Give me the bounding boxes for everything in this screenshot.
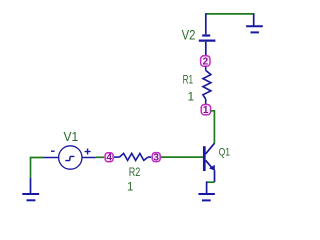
resistor R1 [203,67,211,105]
ground G2 bottom-middle [198,181,215,200]
svg-text:R1: R1 [183,73,194,87]
svg-text:2: 2 [203,56,209,67]
svg-text:3: 3 [153,152,159,163]
node 4 [105,153,113,164]
svg-text:1: 1 [127,181,133,193]
wire V1 left to ground [31,158,44,178]
ground G3 bottom-left [22,178,39,201]
ground G1 top-right [246,13,263,32]
svg-text:1: 1 [203,105,209,116]
svg-text:1: 1 [188,89,195,103]
wire node 3 to Q1 base [161,156,203,158]
transistor Q1 [204,143,215,182]
svg-text:Q1: Q1 [219,147,231,159]
node 1 [201,105,210,117]
wire V2 top to ground [206,13,254,15]
svg-text:4: 4 [106,153,112,164]
resistor R2 [114,153,151,160]
node 2 [201,56,210,68]
battery V2 [199,13,216,55]
node 3 [152,152,160,163]
svg-text:V1: V1 [64,130,79,144]
source V1 [44,146,96,169]
wire node1 to Q1 collector [211,111,215,144]
wire Q1 emitter jog [207,181,215,183]
wire V1 to node 4 [96,156,104,158]
svg-text:R2: R2 [129,167,141,179]
svg-text:V2: V2 [182,27,196,43]
